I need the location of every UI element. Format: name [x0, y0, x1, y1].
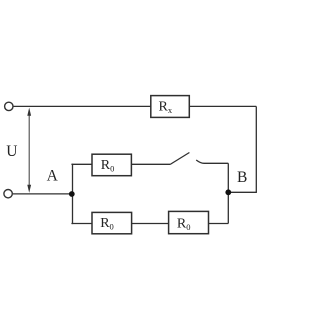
svg-text:U: U [6, 143, 17, 160]
svg-text:A: A [47, 168, 59, 185]
svg-text:B: B [237, 169, 247, 186]
